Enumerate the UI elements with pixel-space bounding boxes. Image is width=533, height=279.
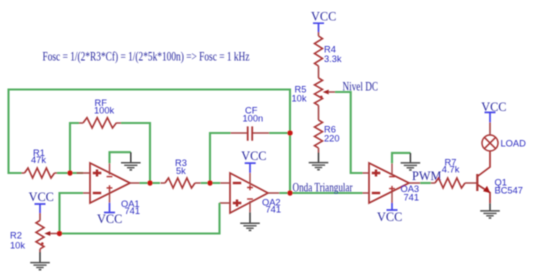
node B (OA1 out) xyxy=(147,180,152,185)
svg-text:Onda Triangular: Onda Triangular xyxy=(293,181,353,195)
svg-text:3.3k: 3.3k xyxy=(324,54,342,64)
ground (OA3 V-) xyxy=(401,153,421,170)
node E (Onda Triangular) xyxy=(287,190,292,195)
wire OA3 out to R7 xyxy=(420,182,431,184)
svg-text:VCC: VCC xyxy=(29,190,54,204)
node C (OA2 inv) xyxy=(207,180,212,185)
op-amp OA3 xyxy=(363,163,421,203)
resistor R3 xyxy=(161,178,201,188)
wire OA2 out / Onda Triangular net xyxy=(279,192,362,194)
svg-text:LOAD: LOAD xyxy=(501,138,527,148)
wire OA3 top power to ground xyxy=(392,153,410,163)
potentiometer R5 xyxy=(292,78,337,120)
node A (R1/RF/OA1+) xyxy=(67,170,72,175)
svg-text:741: 741 xyxy=(266,205,282,215)
svg-text:5k: 5k xyxy=(176,166,186,176)
VCC (OA2 V+) xyxy=(241,149,266,173)
svg-text:R4: R4 xyxy=(324,45,336,55)
resistor RF xyxy=(79,118,121,128)
op-amp OA1 xyxy=(77,163,141,216)
ground (below R2) xyxy=(30,252,50,270)
ground (OA2 V-) xyxy=(240,212,260,230)
svg-text:VCC: VCC xyxy=(481,100,506,114)
svg-text:VCC: VCC xyxy=(97,212,122,226)
svg-text:741: 741 xyxy=(125,206,141,216)
svg-text:10k: 10k xyxy=(292,94,307,104)
potentiometer R2 xyxy=(10,213,60,252)
node F (R2 wiper) xyxy=(57,231,62,236)
wire OA1- to R2 wiper and OA2+ xyxy=(60,193,220,234)
VCC (above R2) xyxy=(29,190,54,213)
ground (Q1 emitter) xyxy=(480,203,500,218)
resistor R7 xyxy=(431,178,478,188)
svg-text:VCC: VCC xyxy=(241,149,266,163)
wire R3 to OA2- xyxy=(201,182,221,184)
VCC (above lamp) xyxy=(481,100,506,122)
svg-text:10k: 10k xyxy=(10,240,25,250)
capacitor CF xyxy=(231,106,270,141)
svg-text:4.7k: 4.7k xyxy=(442,165,460,175)
svg-text:47k: 47k xyxy=(31,155,46,165)
resistor R1 xyxy=(22,168,58,178)
wire R1 to OA1+ xyxy=(57,172,83,174)
resistor R6 xyxy=(315,120,340,153)
svg-text:100k: 100k xyxy=(94,106,115,116)
wire OA1 out to R3 xyxy=(140,182,161,184)
VCC (OA1 V+) xyxy=(97,203,122,227)
svg-text:Fosc = 1/(2*R3*Cf) = 1/(2*5k*1: Fosc = 1/(2*R3*Cf) = 1/(2*5k*100n) => Fo… xyxy=(43,50,250,64)
resistor R4 xyxy=(315,32,342,78)
transistor Q1 xyxy=(477,151,523,203)
VCC (OA3 V+) xyxy=(377,203,402,224)
wire RF right to OA1 output xyxy=(121,123,150,183)
wire OA1 top power to ground xyxy=(110,152,131,163)
svg-text:VCC: VCC xyxy=(311,10,336,24)
svg-text:100n: 100n xyxy=(243,114,264,124)
op-amp OA2 xyxy=(220,173,281,215)
lamp LOAD xyxy=(482,122,526,151)
svg-text:220: 220 xyxy=(324,134,340,144)
ground (below R6) xyxy=(309,153,329,170)
wire R5 wiper to OA3+ xyxy=(335,92,363,173)
node D (CF/out) xyxy=(287,130,292,135)
wire CF right to output column xyxy=(269,132,290,134)
wire CF left branch xyxy=(210,133,231,183)
ground (OA1 V-) xyxy=(121,152,141,170)
VCC (above R4) xyxy=(311,10,336,32)
wire RF drop xyxy=(70,123,79,173)
svg-text:VCC: VCC xyxy=(377,210,402,224)
wire top feedback loop xyxy=(9,90,291,194)
svg-text:R2: R2 xyxy=(10,231,22,241)
svg-text:BC547: BC547 xyxy=(495,185,523,195)
svg-text:741: 741 xyxy=(404,193,420,203)
